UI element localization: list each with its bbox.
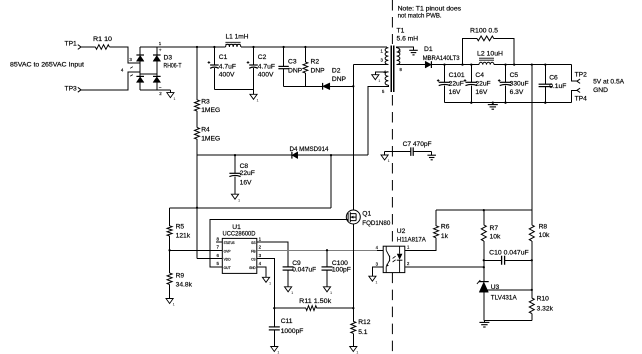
svg-text:UCC28600D: UCC28600D [223, 231, 256, 238]
svg-text:OUT: OUT [224, 266, 232, 270]
svg-text:+: + [159, 49, 162, 54]
svg-text:22uF: 22uF [449, 80, 464, 87]
svg-text:5V at 0.5A: 5V at 0.5A [593, 79, 625, 86]
svg-text:R5: R5 [176, 223, 185, 230]
svg-text:R4: R4 [201, 127, 210, 134]
svg-text:D2: D2 [332, 68, 341, 75]
svg-text:L2 10uH: L2 10uH [477, 51, 503, 58]
svg-text:C1: C1 [219, 54, 228, 61]
svg-text:T1: T1 [397, 28, 405, 35]
svg-text:1: 1 [257, 99, 259, 103]
svg-text:0.1uF: 0.1uF [549, 83, 566, 90]
svg-text:L1 1mH: L1 1mH [226, 33, 249, 40]
svg-text:R1 10: R1 10 [93, 36, 112, 43]
svg-text:R6: R6 [441, 223, 450, 230]
svg-text:TP4: TP4 [575, 95, 588, 102]
svg-text:C2: C2 [258, 54, 267, 61]
svg-text:1k: 1k [441, 233, 449, 240]
svg-text:400V: 400V [219, 72, 235, 79]
svg-text:R8: R8 [539, 223, 548, 230]
svg-text:C8: C8 [240, 163, 249, 170]
svg-text:Q1: Q1 [362, 210, 371, 217]
svg-text:D4 MMSD914: D4 MMSD914 [290, 146, 329, 153]
svg-text:22uF: 22uF [240, 170, 255, 177]
svg-text:4.7uF: 4.7uF [219, 63, 236, 70]
svg-text:22uF: 22uF [475, 80, 490, 87]
svg-text:16V: 16V [240, 180, 252, 187]
svg-text:C5: C5 [510, 72, 519, 79]
svg-text:SS: SS [251, 241, 256, 245]
svg-text:R9: R9 [176, 273, 185, 280]
svg-text:1: 1 [388, 159, 390, 163]
svg-text:C11: C11 [281, 318, 293, 325]
svg-text:C6: C6 [549, 74, 558, 81]
svg-text:1: 1 [238, 198, 240, 202]
svg-text:FQD1N80: FQD1N80 [362, 220, 390, 227]
svg-text:not match PWB.: not match PWB. [398, 13, 442, 20]
svg-text:D3: D3 [164, 55, 173, 62]
svg-text:330uF: 330uF [510, 80, 529, 87]
svg-text:0.047uF: 0.047uF [292, 267, 316, 274]
svg-text:1MEG: 1MEG [201, 107, 220, 114]
svg-text:GND: GND [593, 87, 608, 94]
svg-text:16V: 16V [475, 89, 487, 96]
svg-text:4.7uF: 4.7uF [258, 63, 275, 70]
svg-text:R12: R12 [358, 319, 371, 326]
svg-text:H11A817A: H11A817A [397, 237, 426, 244]
svg-text:MBRA140LT3: MBRA140LT3 [423, 55, 460, 62]
svg-text:C7 470pF: C7 470pF [403, 141, 432, 148]
svg-text:U2: U2 [397, 228, 406, 235]
svg-text:OVP: OVP [224, 249, 232, 253]
svg-text:R10: R10 [537, 295, 550, 302]
svg-text:400V: 400V [258, 72, 274, 79]
svg-text:10k: 10k [490, 234, 501, 241]
svg-text:Note: T1 pinout does: Note: T1 pinout does [398, 5, 462, 12]
svg-text:100pF: 100pF [332, 267, 351, 274]
svg-text:TP2: TP2 [575, 71, 588, 78]
svg-text:6.3V: 6.3V [510, 89, 524, 96]
svg-text:16V: 16V [449, 89, 461, 96]
svg-text:R2: R2 [311, 58, 320, 65]
svg-text:R11 1.50k: R11 1.50k [299, 298, 332, 305]
svg-text:FB: FB [251, 249, 256, 253]
svg-text:TP1: TP1 [65, 41, 78, 48]
svg-text:1: 1 [291, 291, 293, 295]
svg-text:DNP: DNP [288, 67, 303, 74]
svg-text:1: 1 [375, 280, 377, 284]
svg-text:3.32k: 3.32k [537, 306, 554, 313]
svg-text:R3: R3 [201, 98, 210, 105]
svg-text:1000pF: 1000pF [281, 328, 304, 335]
svg-text:C3: C3 [288, 58, 297, 65]
svg-text:C4: C4 [475, 72, 484, 79]
svg-text:R7: R7 [490, 225, 499, 232]
svg-text:34.8k: 34.8k [176, 282, 193, 289]
svg-text:GND: GND [249, 266, 256, 270]
svg-text:121k: 121k [176, 232, 191, 239]
svg-text:R100 0.5: R100 0.5 [470, 28, 498, 35]
svg-text:RH06-T: RH06-T [164, 63, 182, 70]
svg-text:85VAC to 265VAC Input: 85VAC to 265VAC Input [10, 61, 84, 68]
svg-text:C10 0.047uF: C10 0.047uF [489, 250, 529, 257]
svg-text:1: 1 [330, 291, 332, 295]
svg-text:TLV431A: TLV431A [491, 295, 518, 302]
svg-text:5.1: 5.1 [358, 329, 368, 336]
svg-text:1: 1 [173, 97, 175, 101]
svg-text:DNP: DNP [332, 76, 347, 83]
svg-text:TP3: TP3 [65, 86, 78, 93]
svg-text:5.6 mH: 5.6 mH [397, 36, 419, 43]
svg-text:10k: 10k [539, 232, 550, 239]
svg-text:1MEG: 1MEG [201, 136, 220, 143]
svg-text:D1: D1 [424, 46, 433, 53]
svg-text:1: 1 [378, 79, 380, 83]
svg-text:C101: C101 [449, 72, 465, 79]
svg-text:CS: CS [251, 258, 256, 262]
svg-text:1: 1 [269, 282, 271, 286]
svg-text:U3: U3 [491, 284, 500, 291]
svg-text:1: 1 [173, 303, 175, 307]
svg-text:DNP: DNP [311, 67, 326, 74]
svg-text:STATUS: STATUS [224, 241, 235, 245]
svg-text:VDD: VDD [224, 258, 231, 262]
